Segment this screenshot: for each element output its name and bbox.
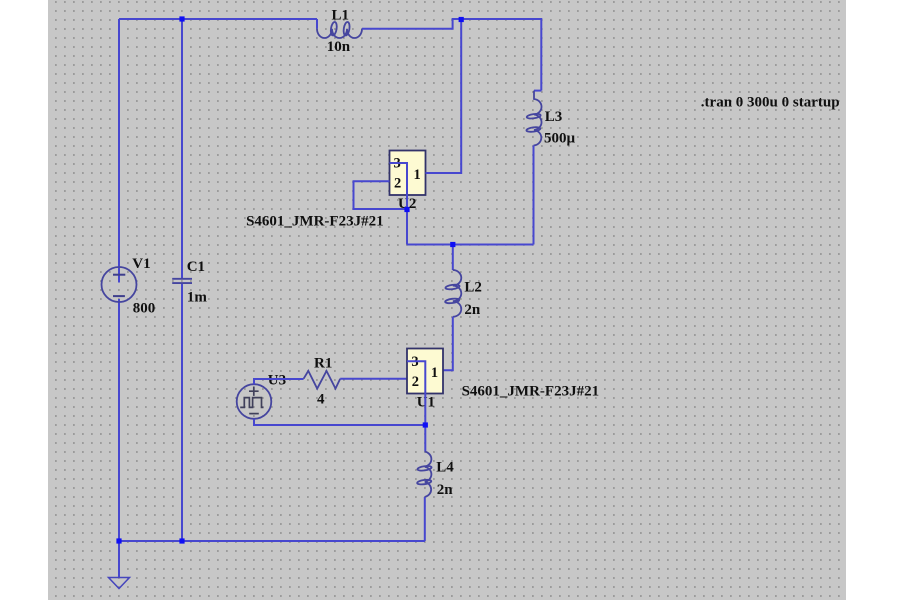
ground — [109, 578, 130, 589]
wire L2 bottom to U1 pin1 — [443, 317, 453, 371]
junction C1 bottom — [179, 538, 184, 543]
svg-text:500µ: 500µ — [544, 130, 576, 146]
svg-text:2n: 2n — [464, 302, 481, 318]
wire V1 top — [118, 19, 120, 283]
wire C1 top — [181, 19, 183, 278]
inductor L2 — [445, 245, 461, 317]
svg-text:10n: 10n — [327, 39, 351, 55]
svg-text:S4601_JMR-F23J#21: S4601_JMR-F23J#21 — [462, 384, 599, 400]
svg-text:2n: 2n — [437, 482, 454, 498]
wire U1 pin3 drop — [407, 361, 425, 451]
svg-text:2: 2 — [394, 176, 401, 192]
wire L3 bottom lead — [533, 146, 535, 245]
svg-text:L3: L3 — [545, 109, 563, 125]
resistor R1 — [304, 371, 341, 389]
wire C1 bottom — [181, 284, 183, 542]
svg-text:4: 4 — [317, 392, 325, 408]
wire bottom rail — [119, 540, 425, 542]
svg-text:1: 1 — [414, 167, 421, 183]
svg-text:U3: U3 — [268, 373, 286, 389]
svg-text:800: 800 — [133, 300, 156, 316]
pulse source U3 — [237, 384, 272, 419]
svg-text:S4601_JMR-F23J#21: S4601_JMR-F23J#21 — [246, 213, 384, 229]
svg-text:1m: 1m — [187, 289, 208, 305]
svg-text:1: 1 — [431, 365, 438, 381]
component U2 — [390, 151, 426, 196]
junction C1 top — [179, 16, 184, 21]
svg-text:L2: L2 — [464, 279, 482, 295]
voltage source V1 — [102, 267, 137, 302]
svg-text:L1: L1 — [332, 7, 350, 23]
wire U2 pin2 loop — [354, 181, 408, 209]
junction V1 bottom — [116, 538, 121, 543]
svg-text:C1: C1 — [187, 259, 205, 275]
wire U2 pin1 — [426, 20, 462, 174]
inductor L3 — [526, 91, 541, 146]
wire U3 top lead — [254, 379, 304, 384]
wire top rail left — [119, 18, 317, 20]
junction top right — [459, 17, 464, 22]
svg-text:.tran 0 300u 0 startup: .tran 0 300u 0 startup — [701, 94, 840, 110]
svg-text:R1: R1 — [314, 356, 332, 372]
inductor L4 — [417, 452, 432, 498]
wire ground stem — [118, 541, 120, 578]
wire mid rail — [407, 244, 534, 246]
wire top rail right to L3 — [362, 19, 541, 91]
capacitor C1 — [172, 279, 192, 283]
junction U1 bottom — [423, 422, 428, 427]
wire L4 bottom — [424, 497, 426, 541]
wire U2 pin3 drop — [390, 163, 408, 245]
junction U2 bottom — [404, 207, 409, 212]
svg-text:L4: L4 — [436, 460, 454, 476]
junction mid rail — [450, 242, 455, 247]
wire R1 to U1 pin2 — [340, 378, 407, 380]
inductor L1 — [317, 19, 362, 38]
wire U3 bottom lead — [254, 419, 425, 425]
svg-text:2: 2 — [412, 374, 419, 390]
svg-text:V1: V1 — [132, 256, 150, 272]
component U1 — [407, 349, 443, 394]
wire V1 bottom — [118, 299, 120, 541]
